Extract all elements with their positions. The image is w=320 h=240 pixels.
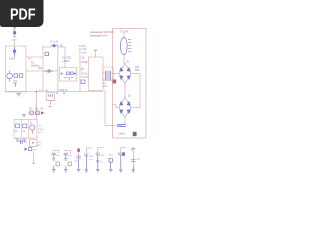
wire — [124, 118, 126, 125]
resistor R8 — [109, 159, 112, 163]
pin block — [66, 72, 69, 75]
wire — [113, 105, 120, 108]
wire — [28, 112, 45, 114]
svg-text:1B4: 1B4 — [135, 67, 140, 69]
resistor R0b — [19, 74, 23, 77]
filter box FB1 — [14, 120, 37, 139]
diode D2 — [61, 72, 63, 74]
wire — [131, 74, 140, 108]
switch S1 — [13, 31, 16, 34]
svg-text:VCC: VCC — [37, 142, 42, 144]
electrolytic C9 group — [75, 149, 81, 172]
connector box J2 — [30, 140, 38, 147]
svg-text:0.4mA: 0.4mA — [79, 45, 86, 48]
wire — [28, 120, 30, 139]
transformer T1 primary — [106, 71, 108, 80]
wire — [42, 46, 44, 92]
capacitor C6 — [19, 140, 24, 145]
pin row — [64, 77, 73, 79]
terminal block J1 — [133, 132, 137, 136]
J2 pin — [32, 142, 34, 144]
svg-text:22 V: 22 V — [38, 132, 43, 134]
svg-text:LM340: LM340 — [63, 61, 71, 63]
svg-text:GND 0V: GND 0V — [59, 90, 68, 92]
junction — [69, 78, 70, 79]
svg-text:L1 1mH: L1 1mH — [50, 42, 58, 44]
wire — [105, 91, 122, 126]
dashed block B1 — [6, 46, 27, 92]
wire — [43, 46, 51, 48]
svg-text:5.0 mV: 5.0 mV — [79, 53, 87, 55]
svg-text:10:1: 10:1 — [103, 86, 108, 88]
svg-text:PDF: PDF — [10, 6, 36, 24]
resistor R4 — [36, 111, 39, 115]
ground — [23, 139, 26, 141]
wire — [26, 56, 43, 58]
power block box PB1 — [113, 29, 147, 139]
electrolytic C12 group — [119, 148, 126, 173]
relay pins — [49, 95, 53, 97]
pin block — [70, 72, 73, 75]
bridge rectifier BR1 — [119, 64, 131, 84]
ground bus — [6, 91, 104, 93]
svg-text:T2 230V: T2 230V — [120, 32, 129, 34]
junction node — [36, 91, 37, 92]
svg-text:wwwwwww 10.0 kHz: wwwwwww 10.0 kHz — [90, 30, 115, 34]
source V1 — [7, 73, 13, 79]
wire — [123, 34, 125, 38]
electrolytic C10 group — [85, 148, 94, 172]
svg-text:2200u: 2200u — [119, 134, 126, 136]
node tick — [49, 106, 51, 108]
wire — [14, 34, 16, 37]
svg-text:U1 7812: U1 7812 — [63, 58, 72, 60]
wire — [47, 101, 55, 106]
transformer T2 coil — [120, 37, 127, 54]
electrolytic C13 group — [131, 148, 141, 172]
pin tick — [94, 49, 96, 51]
subcircuit box SC1 — [89, 57, 104, 91]
resistor R5 — [16, 124, 20, 128]
node dot — [9, 71, 11, 82]
wire — [58, 47, 65, 92]
capacitor C8 group — [64, 151, 72, 173]
electrolytic C11 group — [96, 148, 105, 172]
inductor L1 core — [53, 44, 56, 47]
fuse F1 — [13, 28, 16, 31]
resistor R7 — [29, 147, 32, 150]
Q2 collector wire — [31, 122, 32, 135]
transformer T1 shield box — [103, 67, 113, 81]
diode D3 — [73, 72, 75, 74]
diode D6 — [25, 148, 28, 151]
resistor R0 — [14, 74, 18, 77]
svg-text:12V: 12V — [45, 90, 49, 92]
wire — [79, 55, 81, 92]
wire stub — [95, 51, 97, 58]
svg-text:12 mW: 12 mW — [79, 49, 87, 51]
svg-text:wwwwww 5.0 V: wwwwww 5.0 V — [90, 34, 108, 38]
transformer T1 secondary — [109, 71, 111, 80]
resistor R6 — [23, 124, 27, 128]
svg-text:B05: B05 — [135, 70, 140, 72]
ground — [23, 115, 26, 117]
regulator U1 box — [60, 68, 77, 82]
capacitor C1 — [48, 69, 50, 73]
wire — [36, 92, 38, 120]
transformer T2 core ticks — [128, 40, 131, 52]
wire — [103, 72, 113, 74]
svg-text:LABS: LABS — [9, 58, 15, 61]
wire — [33, 152, 35, 163]
wire — [124, 55, 125, 64]
bus ticks — [57, 92, 64, 94]
bridge rectifier BR2 — [119, 98, 131, 118]
svg-text:R2 1k: R2 1k — [82, 74, 89, 76]
diode D4 — [41, 111, 44, 114]
pin tick — [14, 36, 16, 38]
capacitor C7 group — [52, 151, 60, 173]
tick marks — [81, 69, 84, 71]
ground — [17, 94, 21, 97]
wire — [64, 47, 66, 68]
capacitor C0 — [14, 81, 18, 87]
svg-text:C1 100n: C1 100n — [45, 71, 54, 73]
svg-text:12V: 12V — [37, 145, 41, 147]
ground — [109, 162, 112, 172]
capacitor C5 — [118, 125, 126, 127]
capacitor C2 — [81, 80, 85, 84]
wire — [21, 120, 23, 139]
svg-text:BC547: BC547 — [82, 62, 90, 64]
ground — [16, 139, 19, 141]
capacitor C4 — [113, 80, 117, 84]
wire — [113, 73, 120, 75]
svg-text:2N22: 2N22 — [38, 129, 44, 131]
relay K1 box — [47, 93, 55, 101]
wire — [103, 78, 113, 80]
inductor L1 — [52, 45, 58, 47]
svg-text:1N4: 1N4 — [38, 68, 43, 70]
lamp X1 — [13, 47, 16, 57]
wire — [14, 42, 16, 47]
wire — [124, 84, 126, 98]
transistor Q2 — [30, 125, 35, 130]
wire — [26, 70, 58, 72]
wire stub — [33, 162, 35, 164]
PDF badge — [0, 0, 44, 27]
capacitor C1b — [45, 52, 49, 55]
resistor R3 — [30, 111, 33, 115]
